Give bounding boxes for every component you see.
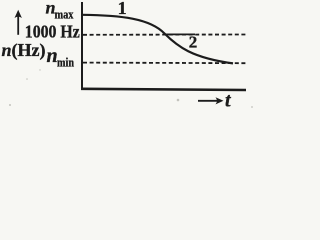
svg-text:2: 2 — [189, 33, 198, 52]
svg-text:min: min — [57, 55, 74, 69]
svg-text:n(Hz): n(Hz) — [2, 40, 46, 61]
svg-text:max: max — [55, 8, 75, 22]
svg-text:n: n — [47, 45, 58, 67]
svg-text:1: 1 — [118, 0, 127, 18]
svg-text:1000 Hz: 1000 Hz — [25, 21, 80, 41]
svg-text:t: t — [225, 89, 232, 111]
